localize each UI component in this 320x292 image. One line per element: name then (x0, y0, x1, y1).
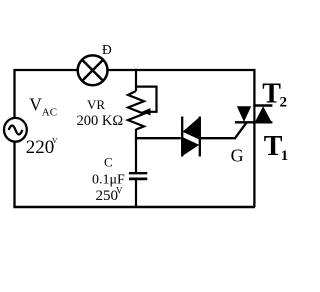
variable resistor VR (128, 91, 144, 130)
svg-text:250: 250 (96, 188, 119, 204)
capacitor C (129, 173, 147, 179)
svg-text:V: V (116, 186, 123, 196)
wire junction to diac (135, 137, 181, 139)
svg-text:2: 2 (280, 95, 288, 111)
lamp D (78, 55, 108, 85)
VR wiper arrow (136, 87, 157, 116)
svg-text:T: T (262, 78, 281, 109)
wire triac between bars (253, 106, 255, 123)
wire junction to capacitor (135, 138, 137, 174)
wire diac to gate (201, 122, 247, 138)
svg-text:V: V (29, 95, 42, 115)
AC source V_AC (4, 118, 27, 142)
svg-text:1: 1 (281, 148, 289, 164)
svg-text:C: C (104, 155, 113, 170)
wire VR branch (135, 69, 137, 91)
wire triac to bottom (253, 122, 255, 207)
svg-text:AC: AC (42, 107, 57, 119)
svg-text:VR: VR (87, 97, 105, 112)
wire capacitor to bottom (135, 179, 137, 207)
svg-text:220: 220 (26, 137, 55, 158)
wire top (108, 70, 255, 106)
svg-text:V: V (52, 136, 58, 145)
svg-text:200 KΩ: 200 KΩ (77, 113, 124, 129)
label T1 (264, 131, 289, 164)
svg-text:Đ: Đ (102, 42, 112, 57)
label 250V (96, 186, 124, 205)
wire VR to junction (135, 129, 137, 139)
wire left lower (13, 142, 15, 208)
triac (235, 106, 273, 123)
wire bottom (13, 206, 255, 208)
wire left (15, 70, 78, 118)
svg-text:G: G (231, 146, 244, 166)
diac (182, 117, 200, 157)
label T2 (262, 78, 287, 110)
label 220V (26, 136, 58, 158)
label V_AC (29, 95, 57, 119)
